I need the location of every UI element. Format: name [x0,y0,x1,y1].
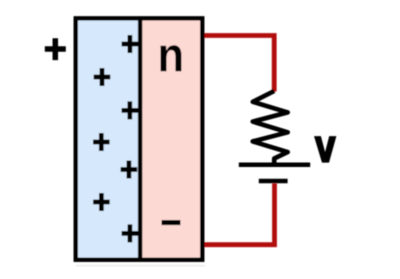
minus terminal label [162,220,181,225]
positive charge +5 [121,161,138,179]
n-region fill (pink, right half of cell) [140,21,200,258]
label V (voltage) [314,136,336,163]
battery long plate (+) [239,163,310,168]
positive charge +1 [122,35,139,53]
positive charge +6 [93,193,110,211]
positive charge +4 [93,133,110,151]
positive charge +7 [122,224,139,242]
positive charge +3 [122,101,139,119]
resistor R (zigzag) [253,91,288,163]
wire: top (cell + terminal to resistor) [201,36,274,92]
battery short plate (-) [259,179,288,184]
faint resample ghost line under cell [76,265,205,266]
p-region fill (blue, left half of cell) [78,21,140,258]
wire: bottom (battery to cell - terminal) [201,184,275,245]
cell body outline [76,18,203,259]
label n (n-region) [160,45,181,71]
external positive charge + (left of cell) [45,38,66,60]
junction divider line [138,18,142,259]
positive charge +2 [94,68,111,86]
